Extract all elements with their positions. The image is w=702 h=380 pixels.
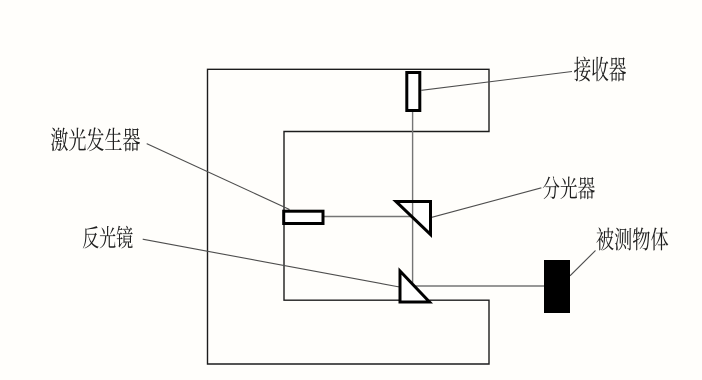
leader line to 分光器 label xyxy=(432,188,542,218)
leader line to 被测物体 label xyxy=(570,251,596,276)
label "分光器" (beam splitter) xyxy=(543,176,595,199)
reflector mirror body (white prism fill) xyxy=(400,271,430,302)
wire: horizontal beam from reflector to measured object xyxy=(413,285,544,287)
label "激光发生器" (laser generator) xyxy=(51,127,140,151)
wire: vertical beam from receiver through splitter to reflector xyxy=(412,112,414,286)
wire: horizontal beam from laser generator to beam splitter xyxy=(325,216,412,218)
label "反光镜" (reflector mirror) xyxy=(83,226,133,249)
beam splitter body (white prism fill) xyxy=(396,202,431,235)
leader line from 反光镜 label xyxy=(143,239,400,287)
laser generator (horizontal rectangle) xyxy=(284,211,323,223)
measured object (solid black block) xyxy=(544,260,570,313)
leader line from 激光发生器 label xyxy=(147,144,290,210)
receiver (vertical rectangle on top arm) xyxy=(407,73,420,111)
leader line to 接收器 label xyxy=(422,72,573,91)
beam splitter (right-triangle prism outline) xyxy=(396,202,431,235)
label "被测物体" (measured object) xyxy=(596,227,668,250)
label "接收器" (receiver) xyxy=(574,56,626,81)
reflector mirror (right-triangle prism outline) xyxy=(400,271,430,302)
machine frame (C-shaped column outline) xyxy=(208,69,490,364)
